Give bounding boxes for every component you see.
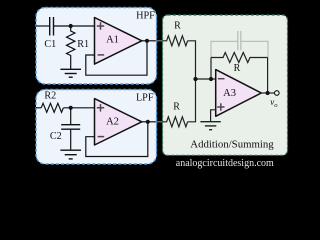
wire feedback to output node: [267, 58, 269, 94]
svg-text:R1: R1: [77, 39, 89, 50]
wire summing node to A3 inverting input: [196, 78, 216, 80]
svg-text:A1: A1: [106, 34, 119, 45]
op-amp A2: [95, 99, 142, 145]
svg-text:C1: C1: [44, 39, 56, 50]
svg-text:A3: A3: [223, 88, 236, 99]
svg-text:A2: A2: [106, 116, 119, 127]
ground HPF: [60, 69, 81, 77]
svg-text:R: R: [173, 101, 180, 112]
op-amp A1: [95, 18, 142, 65]
output terminal circle: [275, 91, 280, 96]
Addition/Summing box: [163, 15, 288, 155]
svg-text:Addition/Summing: Addition/Summing: [190, 139, 274, 151]
HPF filter box: [36, 8, 157, 85]
capacitor C ghost loop wires (faded): [211, 41, 268, 57]
svg-text:LPF: LPF: [136, 92, 154, 103]
capacitor C2: [61, 125, 80, 130]
wire LPF output crossing gap: [156, 121, 163, 123]
wire A3 noninverting input to ground: [211, 110, 216, 122]
wire C2 to ground: [70, 129, 72, 150]
node A2 output: [146, 120, 150, 124]
resistor R from HPF: [162, 36, 187, 46]
wire R2 to A2 noninverting input: [64, 107, 95, 109]
svg-text:R2: R2: [44, 91, 56, 102]
wire A2 output to summing resistor: [142, 121, 157, 123]
ground A3: [200, 122, 220, 130]
wire C1 to A1 noninverting input: [54, 25, 95, 27]
svg-text:analogcircuitdesign.com: analogcircuitdesign.com: [176, 158, 274, 169]
capacitor C1: [50, 17, 54, 36]
wire HPF input to C1: [36, 25, 50, 27]
wire A3 output: [261, 92, 274, 94]
svg-text:HPF: HPF: [136, 10, 155, 21]
node A3 output: [266, 91, 270, 95]
svg-text:R: R: [174, 21, 181, 32]
ground LPF: [60, 150, 81, 159]
wire A1 output to summing resistor: [142, 40, 157, 42]
wire A1 feedback loop: [86, 41, 147, 75]
capacitor C ghost plates (faded): [238, 31, 241, 50]
svg-text:C2: C2: [50, 131, 62, 142]
node LPF junction: [69, 106, 73, 110]
wire joining both input resistors: [188, 41, 196, 122]
LPF filter box: [36, 90, 157, 165]
resistor R feedback: [211, 53, 268, 63]
resistor R from LPF: [162, 117, 187, 127]
resistor R2: [41, 103, 63, 112]
node summing junction 2: [209, 77, 213, 81]
node HPF input junction: [69, 24, 73, 28]
node summing junction 1: [193, 77, 197, 81]
wire node to feedback resistor: [210, 58, 212, 80]
wire LPF input to R2: [36, 107, 41, 109]
op-amp A3: [216, 70, 262, 117]
node A1 output: [145, 39, 149, 43]
wire A2 feedback loop: [86, 122, 148, 157]
wire node to C2: [70, 108, 72, 125]
svg-text:R: R: [234, 63, 241, 74]
wire HPF output crossing gap: [156, 40, 163, 42]
resistor R1: [66, 26, 74, 69]
